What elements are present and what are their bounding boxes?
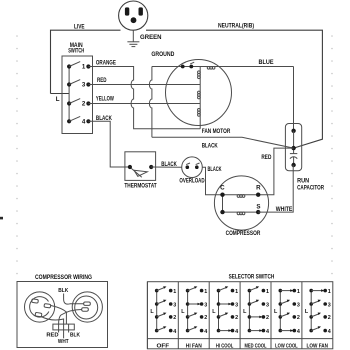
svg-text:SELECTOR SWITCH: SELECTOR SWITCH: [229, 273, 275, 280]
selector HI COOL: terminal dot 4: [231, 329, 235, 333]
selector LOW FAN: terminal dot 2: [323, 315, 327, 319]
svg-text:3: 3: [173, 302, 176, 308]
svg-text:4: 4: [235, 329, 238, 335]
svg-text:1: 1: [297, 289, 300, 295]
selector HI COOL: L bus wire: [218, 291, 220, 331]
main switch terminal dot 2: [86, 101, 90, 105]
compressor C-R winding wire: [223, 194, 259, 196]
selector LOW FAN: pole dot row 3: [309, 302, 313, 306]
selector HI FAN: open contact blade at 2: [188, 314, 197, 317]
motor internal switch dot b: [189, 65, 193, 69]
selector LOW COOL: terminal dot 3: [293, 302, 297, 306]
selector LOW COOL: terminal dot 2: [293, 315, 297, 319]
selector LOW COOL: open contact blade at 3: [280, 301, 289, 304]
plug P1 ground pin: [131, 17, 137, 23]
selector MED COOL: pole dot row 2: [248, 315, 252, 319]
compressor plug left pin 1: [32, 299, 39, 303]
thermostat left terminal dot: [128, 165, 132, 169]
selector LOW FAN: pole dot row 2: [309, 315, 313, 319]
run capacitor bottom terminal dot: [291, 163, 295, 167]
selector LOW FAN: open contact blade at 4: [311, 327, 320, 330]
run capacitor C1 body: [285, 124, 301, 171]
svg-text:2: 2: [328, 315, 331, 321]
svg-text:SWITCH: SWITCH: [68, 48, 84, 55]
svg-text:3: 3: [82, 82, 86, 89]
wire left plug to terminal block (crossing): [51, 306, 67, 325]
selector MED COOL: pole dot row 1: [248, 289, 252, 293]
compressor plug left inner C arc: [30, 297, 49, 317]
main switch terminal dot 1: [86, 64, 90, 68]
black wire thermostat to overload: [151, 166, 182, 168]
svg-text:3: 3: [266, 302, 269, 308]
black wire overload to compressor C: [202, 167, 222, 195]
svg-text:3: 3: [235, 302, 238, 308]
selector HI COOL: open contact blade at 2: [219, 314, 228, 317]
main switch open blade at 2: [69, 99, 80, 104]
compressor terminal C dot: [220, 193, 224, 197]
lead RED stub: [58, 330, 60, 333]
selector LOW FAN: terminal dot 1: [323, 289, 327, 293]
wire left plug bottom sweep to block: [41, 317, 64, 325]
main switch common bus wire: [68, 67, 70, 122]
selector LOW COOL: closed contact blade L-1: [280, 290, 291, 292]
ground symbol under plug: [127, 42, 139, 47]
selector OFF: terminal dot 1: [169, 289, 173, 293]
selector HI COOL: pole dot row 4: [217, 329, 221, 333]
overload protector OL1 circle: [182, 157, 203, 178]
selector HI FAN: closed contact blade L-3: [188, 303, 199, 305]
selector OFF: pole dot row 2: [155, 315, 159, 319]
selector LOW FAN: open contact blade at 3: [311, 301, 320, 304]
svg-text:WHT: WHT: [58, 339, 69, 345]
overload contact ticks: [186, 163, 199, 165]
svg-text:1: 1: [235, 289, 238, 295]
power plug P1 body: [119, 1, 148, 30]
wire socket lower pin to block (crossing): [59, 310, 82, 325]
svg-text:RED: RED: [261, 154, 271, 161]
selector OFF: pole dot row 3: [155, 302, 159, 306]
svg-text:GROUND: GROUND: [151, 51, 174, 58]
selector HI COOL: terminal dot 2: [231, 315, 235, 319]
selector LOW COOL: L bus wire: [279, 291, 281, 331]
motor run winding coil on top line: [207, 66, 215, 69]
selector MED COOL: terminal dot 2: [262, 315, 266, 319]
selector OFF: pole dot row 1: [155, 289, 159, 293]
selector LOW FAN: pole dot row 4: [309, 329, 313, 333]
compressor plug left pin 3: [35, 312, 42, 316]
compressor plug left face outer circle: [24, 292, 54, 322]
selector HI COOL: closed contact blade L-3: [219, 303, 230, 305]
svg-text:3: 3: [204, 302, 207, 308]
orange wire: terminal 1 right, down with hops, to motor bus bottom: [88, 67, 200, 129]
svg-text:4: 4: [297, 329, 300, 335]
selector OFF: terminal dot 2: [169, 315, 173, 319]
svg-text:2: 2: [173, 315, 176, 321]
svg-text:L: L: [56, 96, 60, 103]
selector HI COOL: closed contact blade L-4: [219, 330, 230, 332]
svg-text:2: 2: [297, 315, 300, 321]
compressor wiring terminal block: [53, 324, 74, 330]
svg-text:BLK: BLK: [70, 333, 80, 339]
svg-text:NEUTRAL(RIB): NEUTRAL(RIB): [218, 23, 254, 30]
svg-text:GREEN: GREEN: [140, 34, 162, 41]
fan motor M1 body circle: [166, 60, 232, 126]
svg-text:FAN MOTOR: FAN MOTOR: [202, 128, 231, 135]
compressor socket pin upper: [84, 302, 91, 305]
selector OFF: pole dot row 4: [155, 329, 159, 333]
lead WHT stub: [63, 330, 65, 338]
svg-text:4: 4: [82, 119, 86, 126]
capacitor plates symbol: [290, 154, 297, 159]
selector switch position LOW FAN: cell border: [301, 282, 303, 349]
selector switch position OFF: cell border: [146, 282, 148, 349]
selector LOW FAN: pole dot row 1: [309, 289, 313, 293]
svg-text:OFF: OFF: [157, 344, 170, 350]
selector LOW COOL: terminal dot 4: [293, 329, 297, 333]
motor internal switch dot a: [181, 65, 185, 69]
svg-text:1: 1: [266, 289, 269, 295]
selector MED COOL: open contact blade at 1: [249, 287, 258, 290]
selector MED COOL: pole dot row 3: [248, 302, 252, 306]
svg-text:YELLOW: YELLOW: [96, 96, 114, 103]
svg-text:3: 3: [328, 302, 331, 308]
selector LOW COOL: pole dot row 4: [279, 329, 283, 333]
svg-text:OVERLOAD: OVERLOAD: [179, 177, 205, 184]
wire NEUTRAL(RIB) from plug right to right edge and down: [146, 30, 322, 148]
selector LOW FAN: L bus wire: [310, 291, 312, 331]
selector HI FAN: open contact blade at 1: [188, 287, 197, 290]
svg-text:1: 1: [328, 289, 331, 295]
selector HI FAN: L bus wire: [187, 291, 189, 331]
svg-text:2: 2: [266, 315, 269, 321]
selector HI COOL: terminal dot 3: [231, 302, 235, 306]
svg-text:1: 1: [173, 289, 176, 295]
selector HI FAN: terminal dot 4: [200, 329, 204, 333]
main switch open blade at 1: [69, 62, 80, 67]
selector MED COOL: terminal dot 3: [262, 302, 266, 306]
blk wire from label down across to socket upper pin: [64, 294, 84, 305]
run capacitor middle terminal dot: [291, 146, 295, 150]
selector HI COOL: pole dot row 1: [217, 289, 221, 293]
svg-text:BLACK: BLACK: [161, 161, 177, 168]
compressor terminal S dot: [256, 210, 260, 214]
blue wire from motor to run capacitor top: [293, 67, 295, 131]
svg-text:LOW FAN: LOW FAN: [307, 344, 329, 350]
compressor lower winding wire: [223, 211, 259, 213]
selector LOW COOL: closed contact blade L-4: [280, 330, 291, 332]
selector OFF: open contact blade at 4: [157, 327, 166, 330]
ground/common wire with hops from motor top line down to black run: [149, 67, 152, 138]
compressor plug left pin 2: [44, 304, 51, 308]
selector OFF: L bus wire: [156, 291, 158, 331]
black wire from motor area to run capacitor: [152, 137, 294, 148]
svg-text:1: 1: [82, 64, 86, 71]
selector MED COOL: open contact blade at 3: [249, 301, 258, 304]
selector HI COOL: pole dot row 2: [217, 315, 221, 319]
motor winding coil 3: [198, 109, 201, 117]
compressor socket pin lower: [82, 308, 89, 311]
motor winding bus wire: [199, 67, 201, 129]
svg-text:THERMOSTAT: THERMOSTAT: [124, 182, 156, 189]
svg-text:3: 3: [297, 302, 300, 308]
run capacitor internal wire top: [293, 131, 295, 154]
wire L into main switch: [51, 93, 70, 95]
main switch open blade at 3: [69, 80, 80, 85]
svg-text:LOW COOL: LOW COOL: [275, 344, 298, 350]
selector OFF: open contact blade at 3: [157, 301, 166, 304]
run capacitor internal wire bottom: [293, 157, 295, 165]
svg-text:BLUE: BLUE: [259, 59, 274, 66]
main switch pole dot row 2: [67, 101, 71, 105]
main switch terminal dot 4: [86, 119, 90, 123]
svg-text:S: S: [256, 204, 260, 211]
page perforation dots (decorative): [16, 35, 333, 274]
selector MED COOL: terminal dot 1: [262, 289, 266, 293]
selector LOW FAN: open contact blade at 2: [311, 314, 320, 317]
selector LOW FAN: closed contact blade L-1: [311, 290, 322, 292]
thermostat bimetal symbol: [131, 168, 147, 177]
main switch pole dot row 3: [67, 82, 71, 86]
main switch pole dot row 1: [67, 64, 71, 68]
compressor socket right inner circle: [75, 296, 98, 319]
selector HI FAN: pole dot row 1: [186, 289, 190, 293]
compressor M2 body circle: [214, 176, 268, 230]
selector HI FAN: pole dot row 2: [186, 315, 190, 319]
motor internal switch ticks: [182, 62, 195, 64]
red wire: terminal 3 to motor winding tap: [88, 84, 200, 86]
svg-text:BLACK: BLACK: [202, 143, 218, 150]
selector switch position LOW COOL: cell border: [270, 282, 272, 349]
selector LOW COOL: pole dot row 1: [279, 289, 283, 293]
motor winding coil 2: [198, 91, 201, 99]
selector HI COOL: terminal dot 1: [231, 289, 235, 293]
yellow wire: terminal 2 to motor winding tap: [88, 103, 200, 105]
selector OFF: terminal dot 3: [169, 302, 173, 306]
motor winding coil 1: [198, 71, 201, 79]
selector HI FAN: terminal dot 1: [200, 289, 204, 293]
svg-text:COMPRESSOR: COMPRESSOR: [226, 230, 261, 237]
main switch terminal dot 3: [86, 82, 90, 86]
svg-text:BLK: BLK: [58, 288, 68, 294]
selector MED COOL: L bus wire: [248, 291, 250, 331]
svg-text:2: 2: [235, 315, 238, 321]
compressor start winding coil: [237, 212, 245, 215]
selector LOW COOL: pole dot row 3: [279, 302, 283, 306]
main switch open blade at 4: [69, 116, 80, 121]
overload contact dot right: [195, 165, 199, 169]
selector HI FAN: terminal dot 2: [200, 315, 204, 319]
svg-text:WHITE: WHITE: [276, 206, 293, 213]
plug P1 right prong slot: [139, 7, 143, 15]
selector MED COOL: terminal dot 4: [262, 329, 266, 333]
selector MED COOL: pole dot row 4: [248, 329, 252, 333]
svg-text:2: 2: [204, 315, 207, 321]
compressor run winding coil: [237, 195, 245, 198]
stray scan mark left edge: [0, 217, 3, 220]
main switch S1 box: [62, 56, 93, 134]
compressor wiring inset box: [17, 282, 108, 348]
main switch pole dot row 4: [67, 119, 71, 123]
lead BLK stub: [68, 330, 70, 333]
selector HI COOL: pole dot row 3: [217, 302, 221, 306]
selector MED COOL: closed contact blade L-4: [249, 330, 260, 332]
black wire: terminal 4 to thermostat: [88, 121, 129, 167]
svg-text:C: C: [220, 185, 225, 192]
selector LOW FAN: terminal dot 3: [323, 302, 327, 306]
svg-text:4: 4: [173, 329, 176, 335]
compressor socket right outer circle: [72, 292, 102, 322]
selector LOW COOL: open contact blade at 2: [280, 314, 289, 317]
selector switch position HI FAN: cell border: [177, 282, 179, 349]
compressor terminal R dot: [256, 193, 260, 197]
svg-text:4: 4: [204, 329, 207, 335]
selector OFF: terminal dot 4: [169, 329, 173, 333]
selector switch table frame: [147, 282, 332, 349]
svg-text:4: 4: [328, 329, 331, 335]
block internal dividers: [59, 324, 69, 330]
svg-text:BLACK: BLACK: [208, 166, 222, 173]
selector OFF: open contact blade at 2: [157, 314, 166, 317]
svg-text:2: 2: [82, 101, 86, 108]
svg-text:MED COOL: MED COOL: [245, 344, 268, 350]
selector switch position HI COOL: cell border: [208, 282, 210, 349]
thermostat TH1 box: [125, 152, 156, 181]
svg-text:RED: RED: [46, 333, 58, 339]
svg-text:1: 1: [204, 289, 207, 295]
selector switch position MED COOL: cell border: [239, 282, 241, 349]
svg-text:LIVE: LIVE: [74, 24, 85, 31]
selector HI COOL: open contact blade at 1: [219, 287, 228, 290]
svg-text:COMPRESSOR WIRING: COMPRESSOR WIRING: [35, 274, 92, 281]
selector HI FAN: pole dot row 4: [186, 329, 190, 333]
svg-text:HI FAN: HI FAN: [186, 344, 202, 350]
green ground pigtail wire: [132, 30, 134, 42]
selector HI FAN: pole dot row 3: [186, 302, 190, 306]
selector LOW FAN: terminal dot 4: [323, 329, 327, 333]
plug P1 left prong slot: [125, 7, 129, 15]
motor top line (ground/run line) to blue wire: [152, 66, 294, 68]
red wire capacitor to compressor R: [258, 148, 293, 195]
overload contact dot left: [186, 165, 190, 169]
selector OFF: open contact blade at 1: [157, 287, 166, 290]
wire LIVE from corner to plug: [51, 30, 121, 93]
selector table label-row divider: [147, 338, 332, 340]
white wire compressor S to capacitor bottom: [258, 165, 293, 212]
thermostat right terminal dot: [149, 165, 153, 169]
run capacitor top terminal dot: [291, 129, 295, 133]
compressor common vertical wire: [222, 195, 224, 212]
compressor lower-left junction dot: [220, 210, 224, 214]
selector LOW COOL: pole dot row 2: [279, 315, 283, 319]
svg-text:HI COOL: HI COOL: [216, 344, 234, 350]
svg-text:RED: RED: [97, 77, 107, 84]
selector HI FAN: terminal dot 3: [200, 302, 204, 306]
svg-text:4: 4: [266, 329, 269, 335]
selector LOW COOL: terminal dot 1: [293, 289, 297, 293]
selector HI FAN: open contact blade at 4: [188, 327, 197, 330]
svg-text:CAPACITOR: CAPACITOR: [297, 185, 324, 192]
selector MED COOL: closed contact blade L-2: [249, 316, 260, 318]
svg-text:R: R: [256, 185, 261, 192]
svg-text:ORANGE: ORANGE: [96, 60, 116, 67]
